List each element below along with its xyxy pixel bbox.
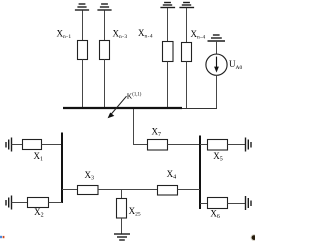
- wire right bus to X5: [200, 144, 208, 146]
- stray dark dot bottom-right corner: [252, 235, 257, 240]
- resistor X4: [158, 186, 178, 196]
- resistor X25: [117, 199, 127, 219]
- wire source to bus: [216, 75, 218, 109]
- stray red mark bottom-left: [3, 236, 5, 238]
- ground G2 (top of branch Xn-3): [97, 4, 111, 10]
- ground G4 (top of branch Xn-4 right): [179, 3, 194, 8]
- resistor X6: [208, 198, 228, 209]
- voltage source UA0 circle: [206, 54, 227, 75]
- wire ground G5 to source circle: [216, 41, 218, 54]
- right bus (thick vertical): [199, 136, 201, 210]
- ground right of X6: [246, 196, 252, 210]
- wire X3 to X4 (through node): [98, 189, 158, 191]
- wire right bus to X6: [200, 203, 208, 205]
- wire node to X25: [121, 190, 123, 199]
- wire ground to X1: [12, 144, 23, 146]
- resistor X2: [28, 198, 49, 208]
- resistor Xn-1 (branch 1 box): [78, 41, 88, 60]
- resistor X7: [148, 140, 168, 151]
- ground G3 (top of branch Xn-4 left): [160, 3, 175, 8]
- ground left of X1: [6, 138, 12, 152]
- resistor X3: [78, 186, 99, 195]
- wire bus extension to source branch: [182, 108, 217, 110]
- resistor Xn-4 (branch 4 box): [182, 43, 192, 62]
- ground left of X2: [6, 196, 12, 210]
- wire ground G3 to resistor Xn-4: [167, 8, 169, 42]
- top bus (thick): [63, 107, 182, 109]
- stray blue mark bottom-left: [0, 236, 2, 238]
- wire resistor Xn-4 right to bus: [186, 62, 188, 109]
- ground G5 (above source UA0): [208, 35, 226, 41]
- ground G1 (top of branch Xn-1): [75, 4, 89, 10]
- wire ground G4 to resistor Xn-4: [186, 8, 188, 43]
- fault arrow K(1,1): [111, 96, 127, 114]
- wire resistor Xn-1 to bus: [82, 60, 84, 108]
- resistor Xn-4 (branch 3 box): [163, 42, 174, 62]
- wire X7 to right bus: [168, 144, 200, 146]
- wire X5 to ground: [228, 144, 246, 146]
- resistor X5: [208, 140, 228, 151]
- wire resistor Xn-4 to bus: [167, 62, 169, 108]
- arrow inside source: [216, 57, 218, 68]
- resistor Xn-3 (branch 2 box): [100, 41, 110, 60]
- wire drop from bus to X7 row: [134, 109, 148, 145]
- wire X4 to right bus: [178, 189, 201, 191]
- wire resistor Xn-3 to bus: [104, 60, 106, 108]
- wire ground G1 to resistor Xn-1: [82, 11, 84, 41]
- wire ground to X2: [12, 202, 28, 204]
- wire ground G2 to resistor Xn-3: [104, 11, 106, 41]
- left bus (thick vertical): [61, 133, 63, 204]
- bottom ground: [114, 234, 130, 240]
- resistor X1: [23, 140, 42, 150]
- wire left bus to X3: [62, 189, 78, 191]
- wire X25 to bottom ground: [121, 218, 123, 234]
- wire X6 to ground: [228, 203, 246, 205]
- wire X2 to left bus: [49, 202, 63, 204]
- ground right of X5: [246, 138, 252, 152]
- wire X1 to left bus: [42, 144, 62, 146]
